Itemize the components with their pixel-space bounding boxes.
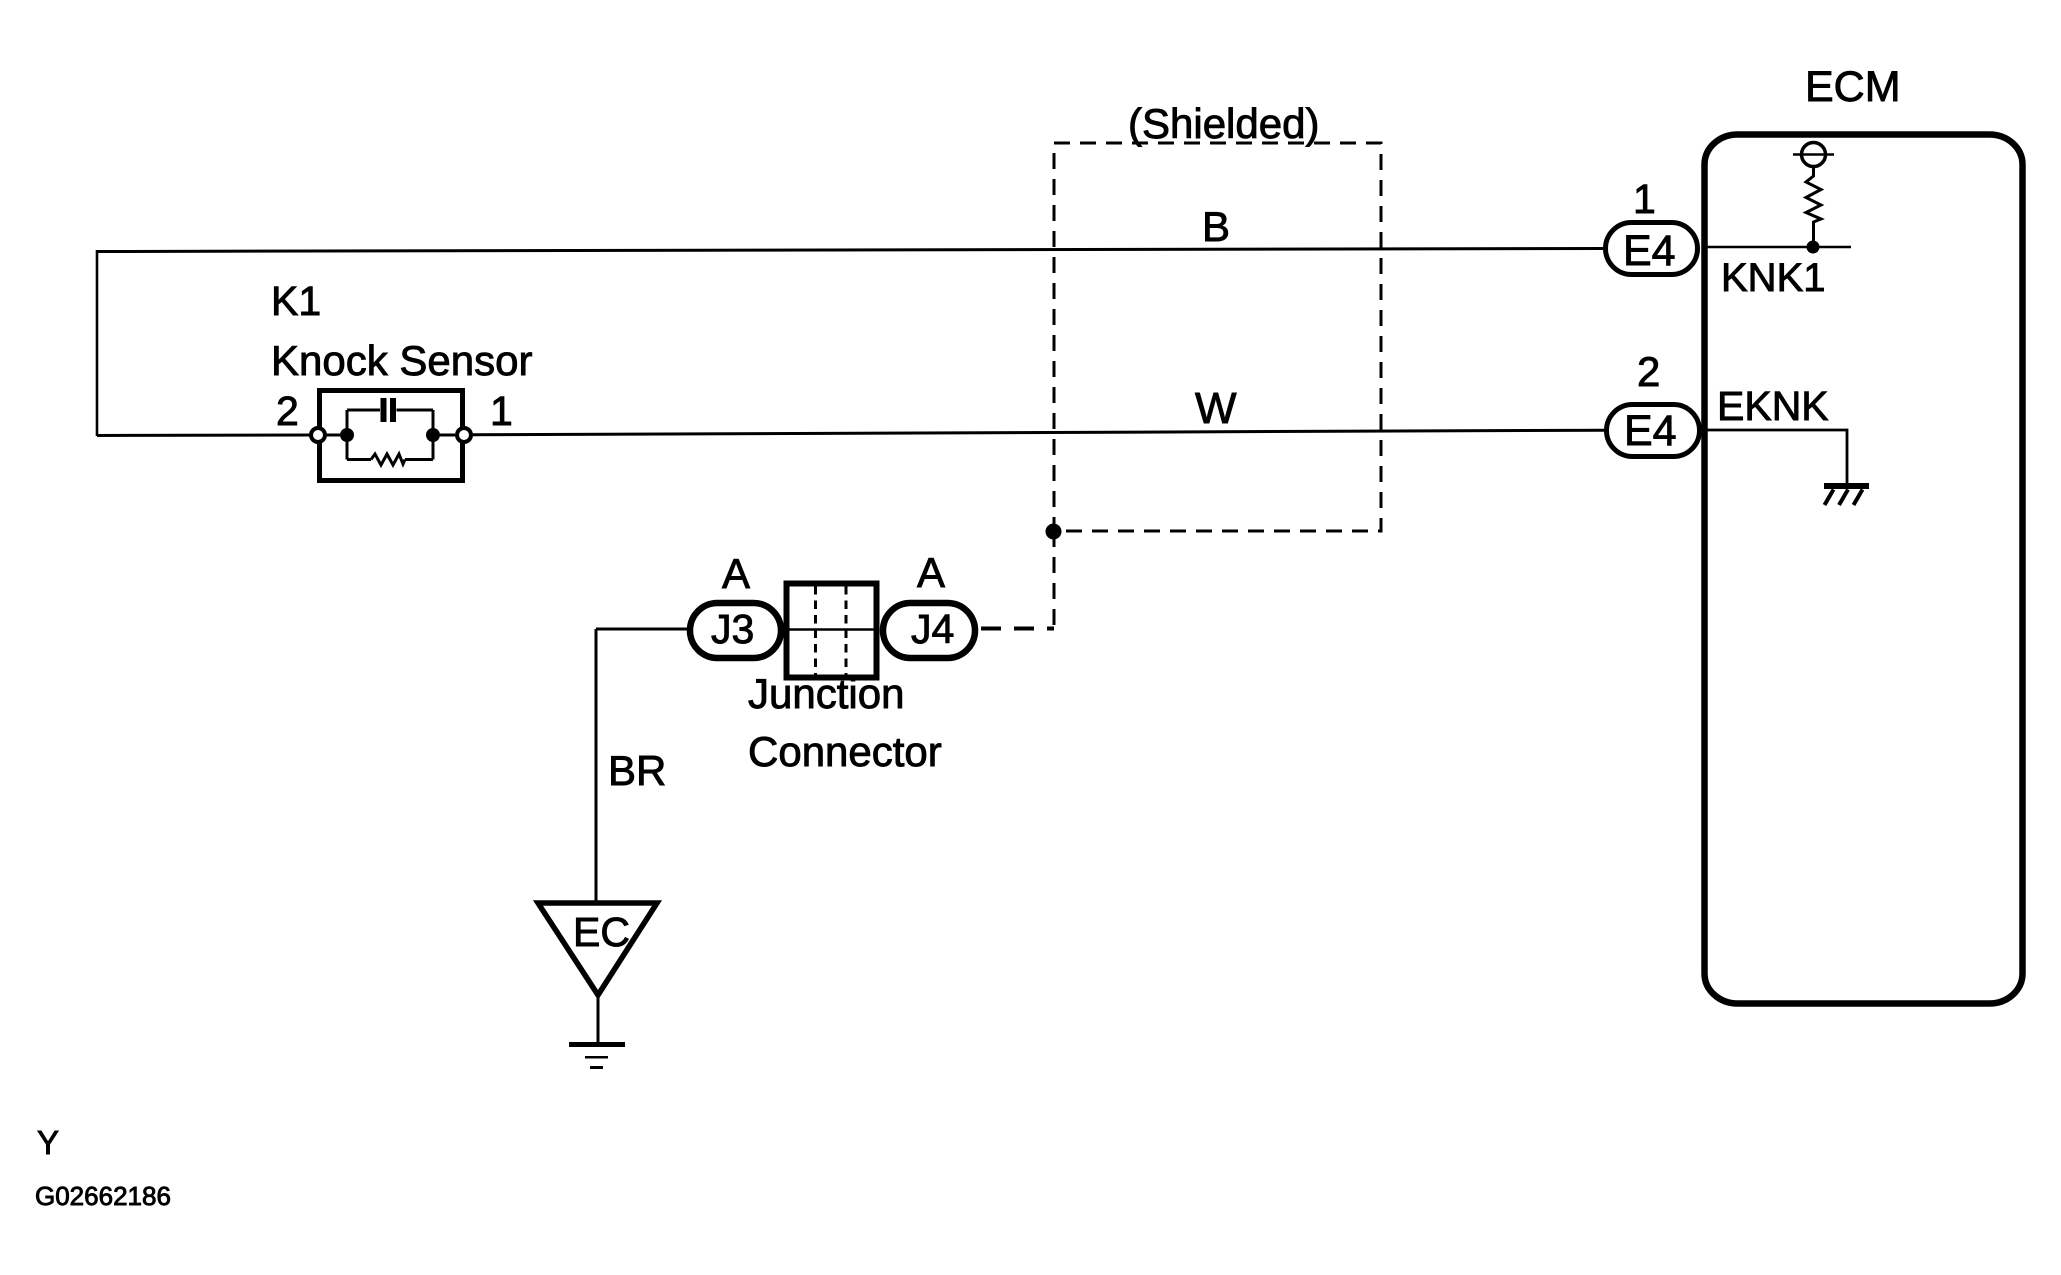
- internal wire KNK1: [1707, 246, 1851, 249]
- wire W right segment: [471, 430, 1604, 435]
- wire sensor inner left: [327, 434, 340, 437]
- svg-text:A: A: [722, 550, 750, 597]
- capacitor C plate left: [381, 398, 387, 422]
- svg-text:J4: J4: [911, 606, 954, 652]
- svg-text:K1: K1: [271, 278, 321, 324]
- node dot left: [340, 428, 354, 442]
- shield dashed box: [1054, 143, 1381, 531]
- wire resistor branch right: [405, 458, 433, 461]
- connector J4 oval: [883, 603, 975, 658]
- svg-text:Knock Sensor: Knock Sensor: [271, 337, 532, 384]
- resistor R zigzag: [371, 454, 405, 465]
- ground symbol EKNK slash 1: [1825, 490, 1834, 506]
- internal resistor zigzag: [1806, 167, 1821, 241]
- terminal circle pin 2: [311, 428, 325, 442]
- svg-text:Junction: Junction: [748, 670, 904, 717]
- ground symbol EKNK slash 3: [1854, 490, 1863, 506]
- ground symbol EKNK bar: [1824, 483, 1869, 489]
- internal junction dot KNK1: [1807, 241, 1820, 254]
- node dot right: [426, 428, 440, 442]
- junction connector box: [787, 584, 877, 678]
- wire EC to ground: [597, 995, 600, 1042]
- internal wire EKNK: [1707, 430, 1847, 484]
- svg-text:Connector: Connector: [748, 728, 942, 775]
- knock sensor K1 box: [320, 391, 463, 481]
- ground symbol EC mid dash: [585, 1056, 608, 1059]
- svg-text:BR: BR: [608, 747, 666, 794]
- ground symbol EKNK slash 2: [1839, 490, 1848, 506]
- wire BR vertical: [595, 629, 598, 903]
- svg-text:E4: E4: [1624, 407, 1677, 455]
- internal node line: [1793, 153, 1834, 156]
- ground symbol EC bar: [569, 1042, 625, 1047]
- svg-text:1: 1: [490, 388, 513, 434]
- svg-text:(Shielded): (Shielded): [1128, 100, 1319, 147]
- svg-text:EKNK: EKNK: [1717, 383, 1829, 429]
- wire left vertical: [96, 250, 99, 436]
- terminal circle pin 1: [457, 428, 471, 442]
- wire capacitor branch left: [347, 409, 380, 412]
- wire sensor inner right: [440, 434, 455, 437]
- wire B top horizontal: [97, 249, 1603, 252]
- dashed wire J4 to shield: [981, 627, 1054, 631]
- svg-text:Y: Y: [37, 1124, 59, 1161]
- junction box dashed vertical 2: [845, 586, 848, 675]
- junction box dashed vertical 1: [814, 586, 817, 675]
- connector E4 pin1 oval: [1606, 223, 1698, 275]
- svg-text:ECM: ECM: [1805, 63, 1901, 111]
- wire resistor branch left: [347, 458, 371, 461]
- shield junction dot: [1046, 524, 1062, 540]
- svg-text:EC: EC: [573, 909, 630, 955]
- svg-text:KNK1: KNK1: [1721, 256, 1826, 300]
- wire capacitor branch right: [397, 409, 434, 412]
- ground symbol EC bottom dash: [590, 1066, 603, 1069]
- svg-text:W: W: [1195, 384, 1237, 433]
- ground triangle EC: [538, 903, 657, 995]
- svg-text:G02662186: G02662186: [35, 1181, 171, 1211]
- node right vertical stub: [432, 410, 435, 460]
- svg-text:B: B: [1202, 203, 1230, 250]
- connector E4 pin2 oval: [1607, 405, 1700, 457]
- wire J3 to left: [596, 628, 690, 631]
- ECM box: [1705, 135, 2023, 1004]
- svg-text:2: 2: [276, 388, 299, 434]
- internal node circle: [1802, 143, 1826, 167]
- connector J3 oval: [690, 603, 781, 658]
- svg-text:1: 1: [1633, 176, 1656, 222]
- wire W left segment: [97, 434, 311, 438]
- svg-text:E4: E4: [1623, 227, 1676, 275]
- capacitor C plate right: [390, 398, 396, 422]
- svg-text:2: 2: [1637, 348, 1660, 395]
- shield left dashed extension: [1053, 531, 1056, 627]
- node left vertical stub: [346, 410, 349, 460]
- junction box middle line: [789, 628, 874, 631]
- svg-text:J3: J3: [711, 606, 754, 652]
- svg-text:A: A: [917, 549, 945, 596]
